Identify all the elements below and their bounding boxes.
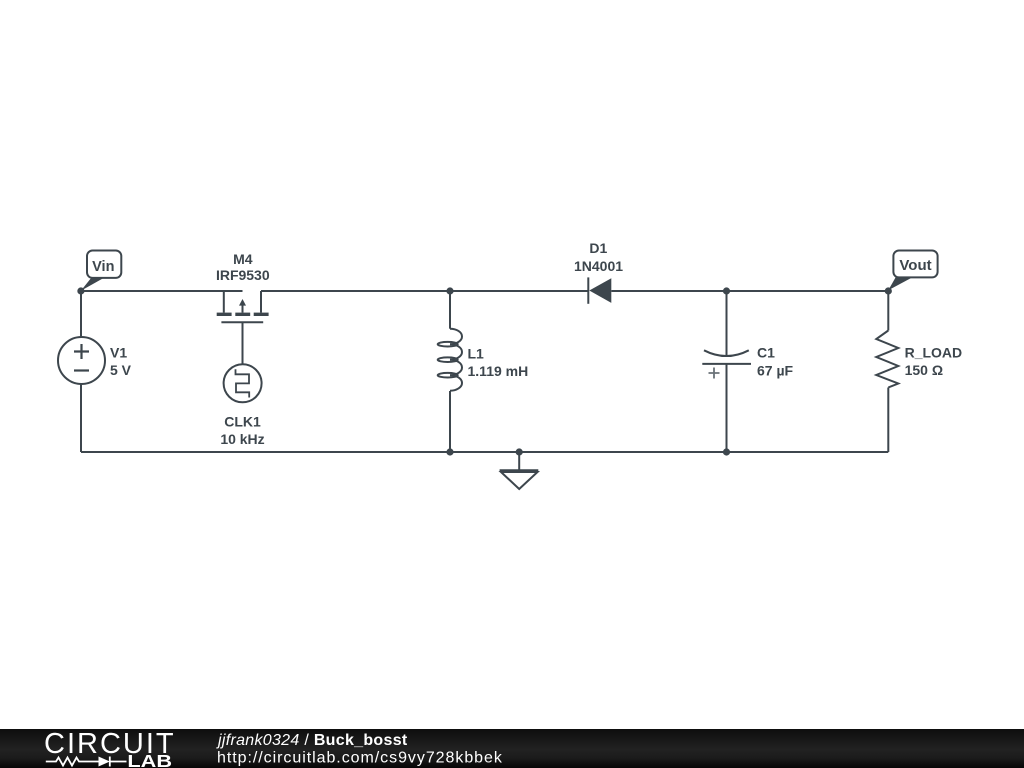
wire R_LOAD bottom lead xyxy=(887,388,889,453)
node ground dot xyxy=(516,448,523,455)
svg-text:5 V: 5 V xyxy=(110,362,132,378)
node L1 top dot xyxy=(446,287,453,294)
clock source CLK1 xyxy=(224,364,262,402)
svg-text:Vout: Vout xyxy=(899,257,931,274)
svg-text:M4: M4 xyxy=(233,251,253,267)
wire C1 bottom lead xyxy=(726,364,728,452)
gate line xyxy=(221,321,263,323)
svg-text:R_LOAD: R_LOAD xyxy=(905,345,963,361)
wire top left (Vin node to MOSFET source) xyxy=(81,290,243,292)
svg-text:10 kHz: 10 kHz xyxy=(220,431,264,447)
resistor R_LOAD xyxy=(876,331,898,388)
wire top middle (MOSFET drain to diode cathode) xyxy=(261,290,588,292)
svg-text:1.119 mH: 1.119 mH xyxy=(468,363,529,379)
inductor L1 xyxy=(438,329,462,391)
node Vin dot xyxy=(77,287,84,294)
node L1 bottom dot xyxy=(446,448,453,455)
net flag Vin xyxy=(81,251,121,291)
svg-text:C1: C1 xyxy=(757,345,775,361)
wire top right (diode anode to Vout node) xyxy=(611,290,888,292)
wire L1 bottom lead xyxy=(449,391,451,452)
logo resistor zigzag xyxy=(46,757,99,765)
wire bottom rail xyxy=(81,451,888,453)
logo diode xyxy=(99,756,110,766)
wire V1 top lead xyxy=(80,291,82,338)
diode D1 xyxy=(588,277,611,303)
wire C1 top lead xyxy=(726,291,728,356)
voltage source V1 xyxy=(58,337,105,384)
wire ground stub xyxy=(518,452,520,471)
node C1 bottom dot xyxy=(723,448,730,455)
node Vout dot xyxy=(885,287,892,294)
svg-text:LAB: LAB xyxy=(127,751,172,768)
mosfet M4 (PMOS) xyxy=(217,291,269,322)
net flag Vout xyxy=(888,251,937,291)
svg-text:D1: D1 xyxy=(589,240,607,256)
ground xyxy=(500,470,539,489)
wire L1 top lead xyxy=(449,291,451,329)
svg-text:Vin: Vin xyxy=(92,259,114,275)
svg-text:67 µF: 67 µF xyxy=(757,363,794,379)
footer bar xyxy=(0,729,1024,768)
wire R_LOAD top lead xyxy=(887,291,889,331)
svg-text:L1: L1 xyxy=(468,346,485,362)
svg-text:CLK1: CLK1 xyxy=(224,414,261,430)
svg-text:1N4001: 1N4001 xyxy=(574,258,623,274)
svg-text:150 Ω: 150 Ω xyxy=(905,362,943,378)
node C1 top dot xyxy=(723,287,730,294)
svg-text:http://circuitlab.com/cs9vy728: http://circuitlab.com/cs9vy728kbbek xyxy=(217,749,503,766)
capacitor C1 xyxy=(702,350,751,378)
wire V1 bottom lead xyxy=(80,384,82,452)
svg-text:IRF9530: IRF9530 xyxy=(216,267,270,283)
wire CLK1 to gate xyxy=(242,322,244,364)
svg-text:V1: V1 xyxy=(110,345,127,361)
svg-text:jjfrank0324 / Buck_bosst: jjfrank0324 / Buck_bosst xyxy=(216,731,408,748)
